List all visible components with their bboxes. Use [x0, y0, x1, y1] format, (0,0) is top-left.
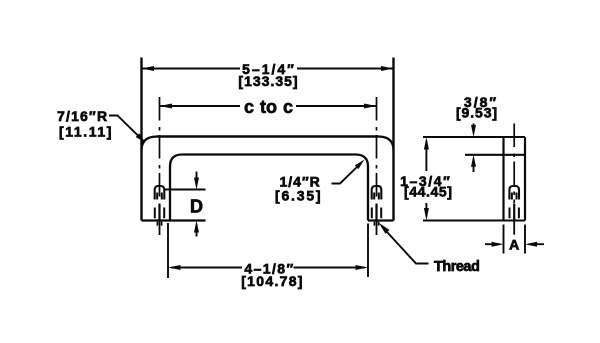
svg-text:[133.35]: [133.35]	[238, 73, 298, 89]
arrow 5-1/4 left	[142, 66, 155, 71]
svg-text:[6.35]: [6.35]	[275, 188, 322, 204]
svg-text:[11.11]: [11.11]	[59, 124, 113, 140]
svg-text:Thread: Thread	[434, 259, 479, 275]
right leg bottom line	[368, 219, 394, 221]
dimension 1-3/4 line segments	[425, 141, 427, 217]
arrow 3/8 top	[471, 125, 476, 137]
svg-text:[9.53]: [9.53]	[456, 105, 498, 121]
dimension 3/8 arrow stems	[473, 124, 475, 173]
handle outer right edge / extension line	[392, 58, 394, 221]
leader 7/16R	[109, 116, 143, 141]
handle outer top edge	[157, 135, 379, 138]
arrow 1-3/4 top	[424, 137, 429, 150]
arrow 4-1/8 left	[168, 265, 181, 270]
side view bottom edge with extension	[423, 219, 525, 221]
leader 1/4R	[332, 165, 360, 184]
arrow D bottom	[194, 221, 199, 233]
dimension 4-1/8 line	[172, 267, 365, 269]
dimension A extension lines	[504, 225, 526, 254]
svg-text:D: D	[190, 197, 203, 217]
side view rectangle	[504, 137, 526, 221]
arrow c-to-c left	[160, 104, 173, 109]
dimension c to c line	[160, 105, 377, 107]
arrowhead leader Thread	[379, 223, 390, 234]
dimension D top extension	[165, 189, 206, 191]
side view centerline	[513, 124, 515, 204]
arrowheads	[136, 66, 537, 270]
side view top edge with 1-3/4 extension	[423, 136, 525, 138]
thread stud side view	[509, 186, 519, 220]
arrow 1-3/4 bottom	[424, 208, 429, 221]
centerline right leg	[376, 97, 378, 203]
thread stud left	[155, 186, 165, 226]
arrow D top	[194, 178, 199, 190]
svg-text:c to c: c to c	[244, 97, 293, 117]
svg-text:A: A	[509, 236, 519, 252]
thread stud right	[372, 186, 382, 226]
arrow A right	[525, 242, 537, 247]
dimension 4-1/8 extension lines	[168, 223, 368, 278]
arrow 4-1/8 right	[356, 265, 369, 270]
svg-text:[44.45]: [44.45]	[404, 184, 453, 200]
left leg bottom line with D extension	[142, 219, 206, 221]
svg-text:[104.78]: [104.78]	[241, 273, 304, 289]
arrow 5-1/4 right	[381, 66, 394, 71]
dimension 5-1/4 line	[142, 68, 394, 70]
arrow c-to-c right	[364, 104, 377, 109]
dimension D arrow stems	[196, 172, 198, 237]
centerline left leg	[159, 97, 161, 203]
leader Thread	[382, 226, 429, 264]
arrow A left	[492, 242, 504, 247]
handle outer left edge / extension line	[140, 58, 142, 221]
side view bar inner line with 3/8 extension	[465, 154, 525, 156]
svg-text:7/16″R: 7/16″R	[57, 108, 108, 124]
handle inner contour	[170, 155, 368, 221]
arrow 3/8 bottom	[471, 155, 476, 167]
dimension A arrow stems	[485, 243, 544, 245]
arrowhead leader 7/16R	[136, 133, 146, 143]
arrowhead leader 1/4R	[355, 160, 365, 170]
outer corner arc right	[379, 137, 394, 151]
outer corner arc left 7/16R	[142, 137, 158, 151]
